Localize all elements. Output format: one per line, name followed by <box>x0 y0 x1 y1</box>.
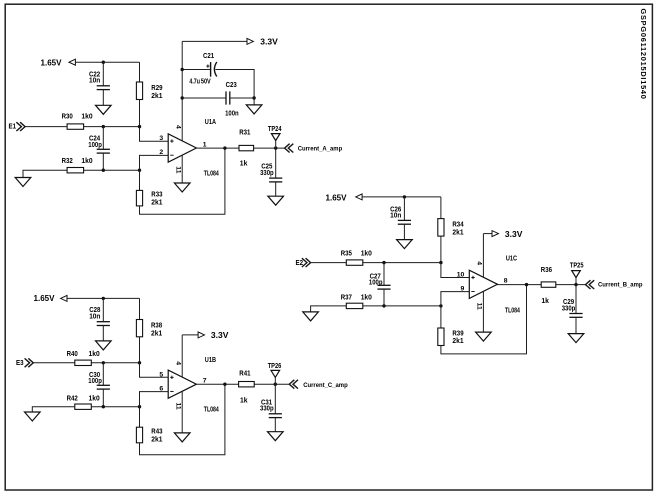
wire riser to C23 <box>182 97 226 99</box>
ground left of R32 <box>15 178 31 187</box>
wire C27 bottom stem <box>383 289 385 306</box>
svg-text:R34: R34 <box>452 222 463 229</box>
resistor R40 body <box>75 360 92 365</box>
wire ground stub to R32 <box>23 170 67 177</box>
svg-text:3: 3 <box>159 135 163 142</box>
resistor R39 body <box>438 328 444 346</box>
ground below C25 <box>268 196 284 205</box>
resistor R42 body <box>75 404 92 409</box>
junction riser / C23 node <box>181 96 184 99</box>
resistor R38 body <box>136 320 142 337</box>
junction R38 / input node B+ <box>138 361 141 364</box>
svg-text:1k0: 1k0 <box>361 294 372 301</box>
svg-text:5: 5 <box>159 371 163 378</box>
test point TP24 <box>271 134 280 141</box>
junction 1.65V / C28 node B <box>102 297 105 300</box>
svg-text:100p: 100p <box>369 280 383 287</box>
wire R41 to port <box>254 383 289 385</box>
wire 1.65V rail B <box>67 297 140 299</box>
svg-text:2: 2 <box>159 149 163 156</box>
wire C30 top stem <box>102 363 104 386</box>
svg-text:50V: 50V <box>201 79 211 86</box>
svg-text:U1B: U1B <box>205 357 216 364</box>
svg-text:100p: 100p <box>88 142 102 149</box>
svg-text:1k0: 1k0 <box>81 158 92 165</box>
wire feedback R33 to output <box>140 148 225 214</box>
svg-text:330p: 330p <box>260 170 274 177</box>
op-amp U1A plus input marker <box>170 139 173 142</box>
resistor R31 body <box>239 145 254 150</box>
wire C29 bottom stem <box>575 317 577 333</box>
svg-text:330p: 330p <box>562 306 576 313</box>
wire R32 to inverting node <box>84 169 140 171</box>
resistor R33 body <box>136 190 142 206</box>
junction TP24 / C25 node <box>274 146 277 149</box>
svg-text:TP25: TP25 <box>570 262 584 269</box>
wire C30 bottom stem <box>102 389 104 407</box>
wire TP26 stub <box>274 377 276 384</box>
wire C23 to ground branch <box>230 97 254 99</box>
wire R29 bottom stem <box>139 100 141 127</box>
junction riser / C21 node <box>181 68 184 71</box>
wire E2 to R35 <box>311 262 347 264</box>
svg-text:1k: 1k <box>541 298 549 305</box>
svg-text:4: 4 <box>175 125 182 129</box>
junction output / feedback node C <box>525 283 528 286</box>
power arrow 1.65V rail B <box>61 295 67 301</box>
svg-text:2k1: 2k1 <box>151 200 162 207</box>
wire pin 4 stub C <box>482 234 484 278</box>
wire C25 top stem <box>275 148 277 178</box>
svg-text:10n: 10n <box>390 213 401 220</box>
wire R37 to inverting node <box>363 305 441 307</box>
svg-text:R36: R36 <box>541 267 552 274</box>
junction output / feedback node B <box>223 383 226 386</box>
capacitor C25 plates <box>269 177 282 179</box>
wire pin 4 stub B <box>181 335 183 377</box>
op-amp U1C minus input marker <box>471 291 474 293</box>
junction R32 / R33 node <box>138 169 141 172</box>
ground below U1B <box>174 433 190 442</box>
junction R30 / C24 node <box>102 125 105 128</box>
svg-text:E2: E2 <box>296 260 304 267</box>
wire pin 11 to ground C <box>482 291 484 332</box>
svg-text:C23: C23 <box>226 82 237 89</box>
svg-text:4: 4 <box>175 361 182 365</box>
ground below C28 <box>96 341 112 350</box>
op-amp U1C (TL084) <box>469 270 497 298</box>
wire node to pin 5 <box>140 363 169 377</box>
svg-text:3.3V: 3.3V <box>260 37 278 46</box>
junction R42 / R43 node <box>138 405 141 408</box>
svg-text:1k0: 1k0 <box>89 351 100 358</box>
wire C26 bottom stem <box>403 224 405 239</box>
svg-text:R39: R39 <box>452 330 463 337</box>
ground below C23 <box>246 105 262 114</box>
wire U1C output to R36 <box>498 284 542 286</box>
svg-text:2k1: 2k1 <box>452 338 463 345</box>
svg-text:2k1: 2k1 <box>151 93 162 100</box>
power arrow 3.3V rail B <box>198 332 204 338</box>
wire R34 top stem <box>440 197 442 219</box>
svg-text:4.7u: 4.7u <box>189 79 200 86</box>
junction R40 / C30 node <box>102 361 105 364</box>
svg-text:6: 6 <box>159 385 163 392</box>
svg-text:R37: R37 <box>341 294 352 301</box>
junction C30 / R42 node <box>102 405 105 408</box>
wire R38 bottom stem <box>139 337 141 363</box>
op-amp U1B (TL084) <box>168 370 196 398</box>
svg-text:R32: R32 <box>62 158 73 165</box>
wire 3.3V rail A <box>182 40 248 42</box>
svg-text:2k1: 2k1 <box>452 229 463 236</box>
wire pin 11 to ground B <box>181 391 183 433</box>
resistor R37 body <box>346 303 363 308</box>
svg-text:TP26: TP26 <box>268 363 282 370</box>
op-amp U1A minus input marker <box>170 154 173 156</box>
wire C28 top stem <box>102 298 104 321</box>
svg-text:U1A: U1A <box>205 119 216 126</box>
wire R42 to inverting node <box>91 406 139 408</box>
svg-text:R41: R41 <box>239 370 250 377</box>
junction output / feedback node A <box>223 146 226 149</box>
wire C28 bottom stem <box>102 326 104 341</box>
svg-text:R43: R43 <box>151 429 162 436</box>
test point TP26 <box>271 370 280 377</box>
capacitor C29 plates <box>569 313 582 315</box>
ground left of R37 <box>303 312 319 321</box>
resistor R32 body <box>67 168 84 173</box>
wire stub to ground <box>253 98 255 105</box>
junction R37 / R39 node <box>439 304 442 307</box>
svg-text:Current_C_amp: Current_C_amp <box>303 382 348 389</box>
wire R36 to port <box>556 284 586 286</box>
svg-text:3.3V: 3.3V <box>505 230 523 239</box>
port symbol Current_C_amp <box>289 380 298 389</box>
wire C31 bottom stem <box>274 418 276 432</box>
resistor R30 body <box>67 124 84 129</box>
op-amp U1B minus input marker <box>170 390 173 392</box>
svg-text:2k1: 2k1 <box>151 330 162 337</box>
svg-text:10: 10 <box>457 271 465 278</box>
wire ground stub to R42 <box>32 407 75 412</box>
junction 1.65V / C22 node A <box>102 61 105 64</box>
wire pin 6 branch <box>140 392 169 428</box>
junction TP26 / C31 node <box>274 383 277 386</box>
capacitor C28 plates <box>97 321 110 323</box>
wire pin 11 to ground <box>181 155 183 183</box>
ground below U1C <box>476 332 492 341</box>
svg-text:3.3V: 3.3V <box>211 331 229 340</box>
junction C24 / R32 node <box>102 169 105 172</box>
wire C31 top stem <box>274 384 276 414</box>
resistor R43 body <box>136 427 142 443</box>
junction R34 / input node C+ <box>439 261 442 264</box>
wire riser to C21 <box>182 69 210 71</box>
wire pin 9 branch <box>441 292 469 328</box>
wire R40 to R38 node <box>91 362 139 364</box>
plus marker of C21 <box>206 65 209 68</box>
wire R31 to port <box>254 147 285 149</box>
power arrow 3.3V rail C <box>492 231 498 237</box>
wire pin 4 supply riser <box>181 41 183 141</box>
wire C21 to right branch <box>215 70 254 99</box>
svg-text:1: 1 <box>203 141 207 148</box>
svg-text:Current_B_amp: Current_B_amp <box>598 281 643 288</box>
capacitor C21 (polarized) <box>210 62 212 77</box>
svg-text:TL084: TL084 <box>204 407 219 414</box>
test point TP25 <box>572 271 581 278</box>
port symbol E1 <box>16 122 25 131</box>
wire R35 to R34 node <box>363 262 441 264</box>
wire C22 bottom stem <box>102 90 104 106</box>
wire node to pin 3 <box>140 127 169 142</box>
wire node to pin 10 <box>441 263 469 278</box>
wire R29 top stem <box>139 62 141 82</box>
svg-text:11: 11 <box>476 303 483 310</box>
wire 3.3V rail C <box>483 233 493 235</box>
svg-text:11: 11 <box>175 166 182 173</box>
wire C29 top stem <box>575 285 577 314</box>
wire E1 to R30 <box>25 126 67 128</box>
ground below U1A <box>174 183 190 192</box>
op-amp U1A (TL084) <box>168 134 196 162</box>
op-amp U1C plus input marker <box>471 276 474 279</box>
power arrow 1.65V rail A <box>69 59 75 65</box>
wire pin 2 branch <box>140 155 169 190</box>
wire C24 bottom stem <box>102 153 104 170</box>
wire E3 to R40 <box>33 362 75 364</box>
svg-text:9: 9 <box>461 286 465 293</box>
junction R29 / input node A+ <box>138 125 141 128</box>
svg-text:R40: R40 <box>67 351 78 358</box>
wire TP25 stub <box>575 278 577 285</box>
power arrow 3.3V rail A <box>247 38 253 44</box>
svg-text:R30: R30 <box>62 114 73 121</box>
svg-text:R42: R42 <box>67 395 78 402</box>
svg-text:R33: R33 <box>151 191 162 198</box>
wire U1B output to R41 <box>196 383 238 385</box>
ground below C31 <box>268 432 284 441</box>
wire ground stub to R37 <box>311 306 347 312</box>
capacitor C27 plates <box>377 284 390 286</box>
svg-text:TP24: TP24 <box>268 126 282 133</box>
svg-text:R38: R38 <box>151 322 162 329</box>
wire C26 top stem <box>403 197 405 221</box>
wire 1.65V rail A <box>75 61 139 63</box>
junction C27 / R37 node <box>382 304 385 307</box>
svg-text:E1: E1 <box>9 124 17 131</box>
capacitor C30 plates <box>97 384 110 386</box>
svg-text:1.65V: 1.65V <box>326 193 348 202</box>
svg-text:1k: 1k <box>240 398 248 405</box>
op-amp U1B plus input marker <box>170 376 173 379</box>
port symbol E3 <box>25 358 34 367</box>
power arrow 1.65V rail C <box>356 194 362 200</box>
wire U1A output to R31 <box>196 147 239 149</box>
svg-text:100n: 100n <box>225 110 239 117</box>
wire feedback R43 to output <box>140 384 225 455</box>
wire C22 top stem <box>102 62 104 86</box>
svg-text:7: 7 <box>203 378 207 385</box>
svg-text:100p: 100p <box>88 378 102 385</box>
port symbol E2 <box>302 258 311 267</box>
capacitor C22 plates <box>97 85 110 87</box>
wire TP24 stub <box>275 141 277 149</box>
capacitor C26 plates <box>398 219 411 221</box>
ground left of R42 <box>25 412 41 421</box>
svg-text:8: 8 <box>504 278 508 285</box>
svg-text:1.65V: 1.65V <box>41 58 63 67</box>
svg-text:1.65V: 1.65V <box>34 294 56 303</box>
svg-text:10n: 10n <box>89 313 100 320</box>
svg-text:330p: 330p <box>260 406 274 413</box>
port symbol Current_B_amp <box>586 280 595 289</box>
svg-text:4: 4 <box>476 261 483 265</box>
junction R35 / C27 node <box>382 261 385 264</box>
wire feedback R39 to output <box>441 285 527 354</box>
svg-text:GSPG06112015DI1540: GSPG06112015DI1540 <box>639 9 648 100</box>
wire 3.3V rail B <box>182 334 199 336</box>
resistor R36 body <box>541 282 556 287</box>
svg-text:Current_A_amp: Current_A_amp <box>298 146 343 153</box>
wire R30 to R29 node <box>84 126 140 128</box>
resistor R29 body <box>136 82 142 100</box>
junction 1.65V / C26 node C <box>403 195 406 198</box>
junction TP25 / C29 node <box>574 283 577 286</box>
svg-text:10n: 10n <box>89 78 100 85</box>
junction C21 / C23 node <box>252 96 255 99</box>
wire R34 bottom stem <box>440 236 442 263</box>
ground below C26 <box>397 240 413 249</box>
svg-text:1k: 1k <box>240 161 248 168</box>
svg-text:2k1: 2k1 <box>151 436 162 443</box>
svg-text:1k0: 1k0 <box>89 395 100 402</box>
svg-text:1k0: 1k0 <box>361 251 372 258</box>
ground below C22 <box>96 105 112 114</box>
capacitor C23 plates <box>225 91 227 104</box>
svg-text:R31: R31 <box>239 129 250 136</box>
wire R38 top stem <box>139 298 141 319</box>
svg-text:U1C: U1C <box>506 256 517 263</box>
svg-text:TL084: TL084 <box>204 170 219 177</box>
port symbol Current_A_amp <box>285 144 294 153</box>
svg-text:11: 11 <box>175 403 182 410</box>
resistor R34 body <box>438 219 444 237</box>
svg-text:R35: R35 <box>341 251 352 258</box>
capacitor C31 plates <box>269 413 282 415</box>
svg-text:1k0: 1k0 <box>81 114 92 121</box>
svg-text:TL084: TL084 <box>505 308 520 315</box>
wire C25 bottom stem <box>275 182 277 196</box>
svg-text:E3: E3 <box>16 360 24 367</box>
wire C27 top stem <box>383 263 385 286</box>
capacitor C24 plates <box>97 148 110 150</box>
wire 1.65V rail C <box>362 196 441 198</box>
wire C24 top stem <box>102 127 104 150</box>
svg-text:R29: R29 <box>151 85 162 92</box>
resistor R41 body <box>239 382 255 387</box>
resistor R35 body <box>346 260 363 265</box>
ground below C29 <box>568 334 584 343</box>
svg-text:C21: C21 <box>203 53 214 60</box>
